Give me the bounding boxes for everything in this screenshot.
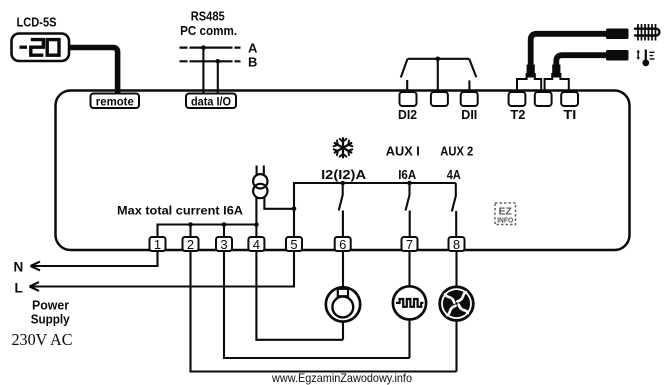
data I/O port box <box>186 94 236 109</box>
svg-text:8: 8 <box>453 237 460 252</box>
svg-text:3: 3 <box>220 237 227 252</box>
svg-text:PC comm.: PC comm. <box>180 23 237 38</box>
svg-text:1: 1 <box>154 237 161 252</box>
sensor T1 connector <box>606 50 629 61</box>
svg-text:230V AC: 230V AC <box>12 330 73 349</box>
snowflake icon <box>333 138 353 157</box>
node A junction <box>201 45 206 50</box>
EZ INFO watermark <box>495 203 516 225</box>
wire terminal 4 riser <box>255 225 257 238</box>
svg-text:AUX 2: AUX 2 <box>440 144 473 158</box>
terminal 7 <box>402 237 418 251</box>
svg-text:B: B <box>248 54 257 69</box>
wire terminal 2 riser <box>189 225 191 238</box>
heater R1 circle <box>393 286 426 319</box>
transformer TR1 coil top <box>253 174 267 188</box>
svg-text:remote: remote <box>96 96 134 108</box>
svg-text:4A: 4A <box>447 168 461 182</box>
terminal DI common <box>431 92 448 106</box>
svg-text:Power: Power <box>32 298 69 313</box>
sensor T2 bracket <box>517 74 541 91</box>
display digit 0 <box>47 40 59 56</box>
compressor M1 inner <box>332 297 353 318</box>
switch DI1 stub <box>468 80 470 92</box>
compressor M1 outer <box>326 287 360 321</box>
transformer left lead wire <box>255 197 257 225</box>
sensor T1 plug <box>552 65 560 78</box>
junction dot switch 7 <box>407 181 412 186</box>
wire terminal 3 riser <box>223 225 225 238</box>
svg-text:A: A <box>248 40 258 55</box>
sensor T2 cable <box>531 34 607 66</box>
junction dot switch 6 <box>340 181 345 186</box>
svg-text:Supply: Supply <box>31 312 71 327</box>
svg-text:I2(I2)A: I2(I2)A <box>321 168 366 182</box>
display digit minus <box>20 46 28 49</box>
terminal DI2 <box>400 92 417 106</box>
arrow head N <box>31 262 41 271</box>
AUX bus wire <box>294 183 456 237</box>
svg-text:2: 2 <box>187 237 194 252</box>
wire fan to outer bus <box>455 320 457 371</box>
terminal T common <box>535 92 552 106</box>
svg-text:RS485: RS485 <box>191 8 225 23</box>
svg-text:5: 5 <box>290 237 297 252</box>
heater R1 wave <box>396 299 423 307</box>
thermometer sensor icon <box>637 50 655 67</box>
svg-text:N: N <box>14 260 24 275</box>
svg-text:TI: TI <box>563 108 576 122</box>
svg-text:www.EgzaminZawodowy.info: www.EgzaminZawodowy.info <box>271 371 412 385</box>
sensor T1 cable <box>556 55 606 66</box>
wire N from terminal 1 <box>31 251 158 266</box>
RS485 line B <box>180 60 241 62</box>
remote port box <box>91 94 140 109</box>
transformer right lead wire <box>264 197 294 208</box>
terminal 6 <box>335 237 351 251</box>
svg-text:INFO: INFO <box>497 216 513 225</box>
display module LCD-5S <box>12 34 70 62</box>
svg-text:data I/O: data I/O <box>191 96 231 108</box>
relay switch 8 <box>452 183 456 237</box>
wire compressor to inner bus <box>342 322 344 340</box>
fan M2 blades <box>443 290 470 317</box>
junction dot bus t4 <box>254 222 259 227</box>
transformer TR1 prongs <box>257 166 264 175</box>
compressor M1 head <box>338 289 348 296</box>
inner bottom bus wire t4 <box>256 251 343 340</box>
svg-text:LCD-5S: LCD-5S <box>17 15 57 29</box>
svg-text:4: 4 <box>253 237 260 252</box>
svg-text:7: 7 <box>406 237 413 252</box>
wire DI common drop <box>437 59 439 92</box>
middle bottom bus wire t3 <box>224 251 410 358</box>
svg-text:T2: T2 <box>510 108 525 122</box>
arrow head L <box>30 282 40 291</box>
sensor T1 bracket <box>545 74 569 91</box>
svg-text:DII: DII <box>461 108 477 122</box>
terminal T2a <box>509 92 526 106</box>
wire data I/O A <box>202 48 204 93</box>
wire terminal 6 to compressor <box>342 251 344 287</box>
svg-text:I6A: I6A <box>398 168 416 182</box>
terminal DI1 <box>461 92 478 106</box>
svg-text:DI2: DI2 <box>398 108 417 122</box>
RS485 line A <box>180 46 241 48</box>
transformer TR1 coil bottom <box>253 184 267 198</box>
svg-text:L: L <box>15 280 23 295</box>
outer bottom bus wire t2 <box>191 251 457 372</box>
wire L to terminal 5 <box>30 251 294 287</box>
terminal 8 <box>449 237 465 251</box>
terminal numbers <box>154 237 460 252</box>
display digit 2 <box>31 40 44 56</box>
controller main box U1 <box>56 91 630 251</box>
junction dot bus t2 <box>188 222 193 227</box>
terminal 1 <box>150 237 166 251</box>
svg-text:6: 6 <box>339 237 346 252</box>
wire data I/O B <box>217 61 219 93</box>
sensor T2 connector <box>606 29 629 40</box>
switch DI2 blade <box>401 59 408 78</box>
relay switch 7 <box>406 183 410 237</box>
wire terminal 7 to heater <box>408 251 410 286</box>
remote cable wire <box>69 48 118 94</box>
relay switch 6 <box>339 183 343 237</box>
terminal 5 <box>286 237 302 251</box>
DI junction dot <box>436 57 441 62</box>
svg-text:Max total current I6A: Max total current I6A <box>117 204 243 218</box>
svg-text:AUX I: AUX I <box>386 144 420 158</box>
switch DI1 blade <box>469 59 476 78</box>
fan M2 outer <box>440 287 474 321</box>
wire terminal 8 to fan <box>455 251 457 287</box>
terminal 2 <box>183 237 199 251</box>
terminal T1a <box>561 92 578 106</box>
node B junction <box>216 59 221 64</box>
evaporator coil icon <box>635 24 659 41</box>
terminal 3 <box>216 237 232 251</box>
terminal 4 <box>248 237 264 251</box>
junction dot bus t3 <box>222 222 227 227</box>
max current bus wire <box>158 225 257 238</box>
DI bus wire <box>408 58 470 60</box>
switch DI2 stub <box>406 80 408 92</box>
junction dot transformer to t5 riser <box>292 207 297 212</box>
wire heater to middle bus <box>408 320 410 359</box>
sensor T2 plug <box>527 65 535 78</box>
